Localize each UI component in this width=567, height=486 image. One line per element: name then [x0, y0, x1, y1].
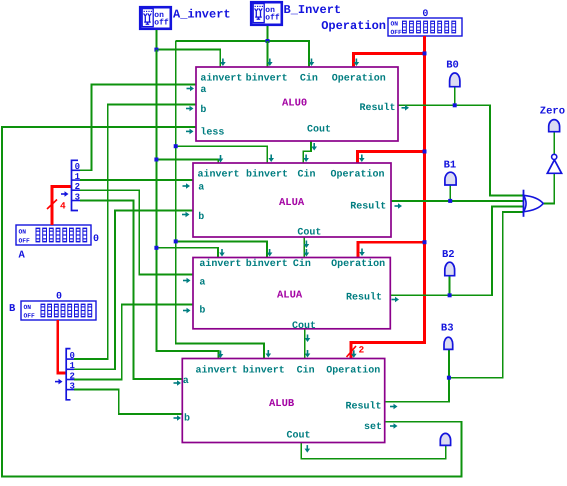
splitter A pin 2 [72, 189, 81, 191]
svg-text:ALUA: ALUA [279, 197, 305, 209]
pin arrow ALUA-1 Result [395, 205, 400, 207]
svg-text:b: b [184, 413, 190, 425]
svg-text:Operation: Operation [321, 19, 386, 33]
wire carry ALU0 Cout to ALUA-1 Cin [303, 141, 311, 163]
svg-text:a: a [200, 85, 206, 96]
splitter B pin 0 [66, 358, 74, 360]
svg-text:off: off [154, 19, 169, 28]
svg-text:Operation: Operation [332, 73, 386, 85]
svg-text:Cin: Cin [293, 258, 311, 270]
wire B bit1 to ALUA-1 b [74, 211, 193, 370]
junction B_Invert net (top, binvert pin) [266, 39, 270, 43]
wire ALUB set to ALU0 less (feedback loop) [2, 127, 461, 477]
svg-text:Cin: Cin [298, 168, 316, 180]
svg-text:binvert: binvert [243, 365, 285, 377]
box U4 [182, 359, 384, 443]
pin arrow ALUA-2 Result [392, 299, 397, 301]
pin arrow ALU0 Result [402, 107, 407, 109]
svg-text:Result: Result [350, 201, 386, 213]
svg-text:a: a [198, 183, 204, 194]
wire A bit2 to ALUA-2 a [80, 190, 193, 274]
pin arrow ALUA-1 a [183, 185, 188, 187]
svg-text:ALU0: ALU0 [282, 97, 307, 109]
junction B_Invert / ALUA-2 binvert [174, 239, 178, 243]
svg-text:Result: Result [346, 401, 382, 413]
svg-text:set: set [364, 422, 382, 433]
wire B bit3 to ALUB b [74, 390, 182, 414]
toggle switch A_invert [140, 7, 171, 29]
svg-text:off: off [265, 14, 280, 23]
wire A_invert to ALU0 ainvert [156, 50, 220, 67]
indicator LED carry-out [440, 433, 450, 445]
svg-text:binvert: binvert [246, 168, 288, 180]
svg-text:B3: B3 [441, 322, 454, 334]
junction A_invert net (top) [154, 48, 158, 52]
bus width slash 4 (A bus) [47, 200, 57, 210]
svg-text:ainvert: ainvert [196, 365, 238, 377]
wire B_Invert branch to ALUA-1 binvert [176, 146, 268, 163]
junction B_Invert / ALUA-1 binvert [174, 144, 178, 148]
splitter A pin 1 [72, 179, 81, 181]
DIP switch Operation [388, 18, 462, 36]
DIP switch A [16, 225, 91, 245]
junction Result3 / LED B3 [447, 376, 451, 380]
wire A bit3 to ALUB a [80, 201, 182, 379]
junction red bus / ALUA-1 Operation [423, 150, 427, 154]
svg-text:b: b [200, 104, 206, 116]
wire ALUB Result to OR input 4 [385, 212, 524, 402]
svg-text:A: A [19, 250, 26, 262]
splitter A pin 0 [72, 169, 81, 171]
pin arrow ALU0 Cin [311, 59, 313, 64]
indicator LED B1 stub [449, 185, 451, 201]
indicator LED B0 stub [454, 87, 456, 106]
wire ALUA-1 Result to OR input 2 [391, 200, 524, 202]
svg-text:Cout: Cout [287, 431, 311, 442]
svg-text:OFF: OFF [24, 313, 36, 320]
junction red bus / ALUA-2 Operation [423, 240, 427, 244]
pin arrow ALU0 b [186, 108, 191, 110]
wire A_invert switch stub [155, 30, 157, 50]
pin arrow ALUA-2 Operation [361, 249, 363, 254]
svg-text:B0: B0 [446, 60, 459, 72]
svg-text:ainvert: ainvert [199, 258, 241, 270]
pin arrow ALUB b [174, 417, 179, 419]
splitter B pin 1 [66, 368, 74, 370]
box U2 [193, 163, 391, 237]
wire A_invert vertical trunk to ALUB ainvert [156, 50, 218, 359]
junction A_invert / ALUA-1 ainvert [154, 158, 158, 162]
wire A_invert branch to ALUA-2 ainvert [156, 248, 218, 258]
wire ALUB Cout to carry LED [301, 443, 446, 459]
svg-text:a: a [183, 376, 189, 387]
wire A bit0 to ALU0 a [80, 85, 196, 171]
splitter B bus-entry arrow [55, 381, 60, 383]
svg-text:Operation: Operation [331, 168, 385, 180]
svg-text:ainvert: ainvert [200, 73, 242, 85]
svg-text:0: 0 [93, 234, 99, 245]
bus branch to ALUA-1 Operation (red) [357, 152, 424, 164]
pin arrow ALU0 a [187, 88, 192, 90]
pin arrow ALUA-1 ainvert [220, 155, 222, 160]
bus wire A (red) [52, 187, 71, 226]
wire ALUA-2 Result to OR input 3 [390, 207, 523, 296]
svg-text:ainvert: ainvert [198, 168, 240, 180]
svg-text:0: 0 [56, 292, 62, 303]
pin arrow ALUA-2 b [183, 310, 188, 312]
splitter A bus-entry arrow [61, 193, 66, 195]
indicator LED B1 [445, 172, 456, 185]
svg-text:binvert: binvert [246, 258, 288, 270]
or-gate U5 (zero detect) [523, 190, 525, 217]
pin arrow ALU0 ainvert [222, 59, 224, 64]
pin arrow ALU0 Operation [355, 59, 357, 64]
bus width slash 2 (ALUB Operation) [347, 346, 357, 357]
svg-text:Cout: Cout [297, 228, 321, 239]
indicator LED B2 stub [449, 276, 451, 296]
svg-text:ON: ON [19, 228, 27, 235]
bus splitter B bracket [66, 349, 70, 400]
pin arrow ALUA-2 Cin [305, 249, 307, 254]
svg-text:ALUA: ALUA [277, 289, 303, 301]
svg-text:Zero: Zero [540, 106, 565, 118]
svg-text:Cin: Cin [297, 365, 315, 377]
indicator LED B3 [444, 337, 453, 349]
pin arrow ALUA-1 b [182, 214, 187, 216]
pin arrow ALUA-2 Cout [307, 335, 309, 340]
svg-text:B1: B1 [444, 160, 457, 172]
wire A bit1 to ALUA-1 a [80, 179, 193, 181]
wire B_Invert branch to ALUA-2 binvert [176, 241, 267, 257]
bus branch to ALU0 Operation (red) [354, 53, 425, 67]
indicator LED Zero [549, 120, 560, 132]
inverter U6 (NOT gate) [547, 160, 561, 174]
svg-text:3: 3 [75, 192, 80, 202]
wire B_Invert vertical trunk to ALUB binvert [176, 41, 264, 359]
svg-text:binvert: binvert [246, 73, 288, 85]
pin arrow ALUA-2 ainvert [221, 249, 223, 254]
svg-text:4: 4 [60, 201, 66, 212]
svg-text:B: B [9, 303, 16, 315]
junction red bus / ALU0 Operation [423, 51, 427, 55]
svg-text:2: 2 [359, 344, 365, 355]
svg-text:OFF: OFF [19, 238, 31, 245]
pin arrow ALUB binvert [267, 350, 269, 355]
pin arrow ALU0 less [186, 130, 191, 132]
svg-text:ON: ON [24, 304, 32, 311]
bus wire B (red) [58, 320, 66, 373]
indicator LED B0 [450, 73, 460, 87]
pin arrow ALU0 Cout [313, 143, 315, 148]
bus splitter A bracket [72, 160, 79, 210]
svg-text:OFF: OFF [391, 29, 403, 36]
svg-text:b: b [198, 211, 204, 223]
junction A_invert / ALUA-2 ainvert [154, 246, 158, 250]
svg-text:Cout: Cout [292, 321, 316, 332]
wire carry ALUA-1 Cout to ALUA-2 Cin [303, 237, 305, 258]
bus wire Operation main (red) [351, 36, 425, 359]
svg-text:ON: ON [391, 21, 399, 28]
DIP switch B [21, 301, 96, 320]
bus branch to ALUA-2 Operation (red) [358, 242, 424, 257]
wire ALU0 Result to OR input 1 [398, 105, 524, 195]
indicator LED B3 stub [448, 349, 450, 377]
toggle switch B_Invert [251, 2, 282, 25]
svg-text:Result: Result [360, 102, 396, 114]
pin arrow ALUA-1 binvert [270, 155, 272, 160]
wire B_Invert to ALU0 Cin [176, 41, 309, 67]
pin arrow ALUB Result [390, 406, 395, 408]
junction Result2 / LED B2 [448, 293, 452, 297]
splitter B pin 3 [66, 389, 74, 391]
svg-text:0: 0 [75, 162, 80, 172]
pin arrow ALUA-2 a [183, 280, 188, 282]
svg-text:Cout: Cout [307, 125, 331, 136]
svg-text:B_Invert: B_Invert [284, 3, 342, 17]
pin arrow ALUA-2 binvert [269, 249, 271, 254]
box U3 [193, 258, 390, 329]
pin arrow ALUB Cout [306, 445, 308, 450]
wire B bit0 to ALU0 b [74, 105, 196, 360]
pin arrow ALUB Cin [307, 350, 309, 355]
svg-text:b: b [199, 305, 205, 317]
splitter A pin 3 [72, 200, 81, 202]
svg-text:1: 1 [75, 172, 81, 182]
svg-text:Operation: Operation [326, 365, 380, 377]
svg-text:Result: Result [346, 292, 382, 304]
svg-text:B2: B2 [442, 249, 455, 261]
junction Result0 / LED B0 [453, 103, 457, 107]
svg-text:ALUB: ALUB [269, 398, 295, 410]
pin arrow ALUA-1 Operation [361, 155, 363, 160]
wire OR output to inverter [542, 173, 554, 203]
splitter B pin 2 [66, 379, 74, 381]
svg-text:Operation: Operation [331, 258, 385, 270]
indicator LED B2 [445, 262, 455, 276]
pin arrow ALUB ainvert [220, 351, 222, 356]
wire B_Invert ALU0 binvert stub [267, 41, 269, 67]
pin arrow ALUB Operation [353, 350, 355, 355]
svg-text:A_invert: A_invert [173, 8, 231, 22]
pin arrow ALUB a [174, 382, 179, 384]
svg-text:Cin: Cin [300, 73, 318, 85]
wire inverter to Zero LED [553, 132, 555, 154]
pin arrow ALUA-1 Cout [305, 241, 307, 246]
wire B_Invert switch stub [267, 26, 269, 41]
op-amp-box U1 [196, 67, 398, 141]
svg-text:less: less [200, 127, 224, 139]
pin arrow ALUB set [390, 425, 395, 427]
wire carry ALUA-2 Cout to ALUB Cin [304, 329, 306, 359]
pin arrow ALU0 binvert [269, 59, 271, 64]
pin arrow ALUA-1 Cin [305, 155, 307, 160]
svg-text:a: a [199, 278, 205, 289]
svg-text:2: 2 [75, 182, 80, 192]
wire B bit2 to ALUA-2 b [74, 304, 193, 379]
junction Result1 / LED B1 [448, 199, 452, 203]
wire A_invert branch to ALUA-1 ainvert [156, 160, 218, 164]
